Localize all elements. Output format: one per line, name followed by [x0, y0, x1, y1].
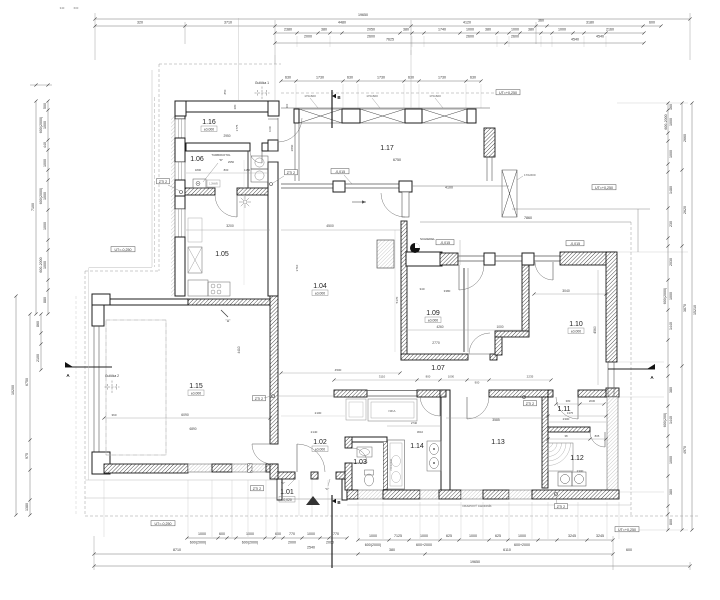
svg-text:6890: 6890 — [189, 427, 196, 431]
svg-text:600: 600 — [649, 21, 655, 25]
svg-text:4560: 4560 — [593, 326, 597, 334]
svg-text:6110: 6110 — [503, 548, 511, 552]
basins 1.14 — [427, 441, 441, 471]
svg-text:2770: 2770 — [432, 341, 440, 345]
mini chain 1.11 mid — [548, 415, 606, 417]
mini chain 1.12 top — [548, 438, 606, 440]
wall east block mid — [268, 162, 278, 296]
section marker A left — [65, 366, 112, 368]
svg-text:2100: 2100 — [315, 411, 322, 415]
svg-text:1380: 1380 — [25, 503, 29, 511]
svg-text:2140: 2140 — [311, 430, 318, 434]
svg-text:-0,020: -0,020 — [282, 498, 292, 502]
svg-text:6750: 6750 — [393, 158, 401, 162]
wardrobe niche 1.02 — [368, 399, 417, 421]
svg-text:UT=+0,250: UT=+0,250 — [595, 186, 613, 190]
svg-text:1800: 1800 — [195, 168, 202, 172]
east pillar 1.17 hatched — [484, 128, 495, 157]
wall east of 1.15 lower — [270, 464, 278, 479]
glazing north entry 2 — [495, 255, 522, 257]
svg-text:1.02: 1.02 — [313, 439, 327, 446]
svg-text:3110: 3110 — [379, 375, 386, 379]
svg-text:1740: 1740 — [438, 28, 446, 32]
wall 1.10 east — [606, 252, 617, 362]
extension drops below south rooms — [357, 502, 359, 539]
svg-text:340: 340 — [60, 6, 65, 10]
window 1.15 south 3 — [252, 464, 266, 472]
svg-text:ZTI 2: ZTI 2 — [557, 505, 565, 509]
svg-text:380: 380 — [669, 387, 673, 393]
svg-text:2030: 2030 — [589, 399, 596, 403]
dimension chain left lower outer 10200 — [15, 296, 17, 515]
window west wall of 1.15 — [93, 326, 95, 452]
wall pier 1.15 south — [212, 464, 232, 472]
divider wall 1.16/1.06 — [186, 143, 250, 151]
ZTI marker 1.15 — [253, 396, 266, 401]
svg-text:10200: 10200 — [11, 385, 15, 395]
svg-text:600-2000: 600-2000 — [664, 114, 668, 129]
wall 1.13 west upper — [440, 396, 446, 398]
svg-text:1.09: 1.09 — [426, 310, 440, 317]
svg-text:1.01: 1.01 — [280, 489, 294, 496]
svg-text:2860: 2860 — [290, 144, 294, 151]
east wall strip hatched — [606, 388, 619, 397]
svg-text:1000: 1000 — [369, 534, 377, 538]
corridor south wall C — [489, 390, 551, 397]
window west wall of 1.06 — [175, 162, 185, 180]
svg-text:6750: 6750 — [25, 378, 29, 386]
svg-text:1000: 1000 — [496, 325, 503, 329]
closet 1.02 corner — [346, 399, 366, 420]
mini chain 1.11 top — [556, 403, 604, 405]
overhang dashed bottom — [85, 515, 700, 517]
svg-text:380: 380 — [233, 104, 237, 109]
dashed floor area 1.15 — [106, 320, 166, 455]
south wall bottom strip — [347, 490, 358, 499]
wall 1.10 north exterior — [560, 252, 616, 265]
svg-text:975: 975 — [25, 453, 29, 459]
svg-text:2660: 2660 — [683, 134, 687, 142]
pier north 1.17 d — [467, 109, 476, 123]
niche east wall 1.06 — [268, 150, 278, 152]
section marker B bottom — [331, 495, 333, 568]
svg-text:3870: 3870 — [683, 304, 687, 312]
svg-text:1000: 1000 — [448, 375, 455, 379]
south glazing 1.17 line A — [281, 183, 333, 185]
svg-text:1.03: 1.03 — [353, 459, 367, 466]
insulation strip west of 1.16 block — [171, 116, 175, 296]
kitchen counter 1.05 — [188, 280, 208, 296]
wall 1.03 west upper — [345, 437, 352, 448]
dimension chain bottom row2 — [94, 553, 613, 555]
svg-text:2740: 2740 — [411, 421, 418, 425]
wall 1.05 west — [175, 196, 185, 209]
bathroom 1.03 WC — [365, 474, 374, 486]
kitchen fridge 1.05 — [188, 247, 202, 273]
svg-text:1150: 1150 — [244, 168, 250, 172]
washer dryer 1.12 — [558, 472, 586, 486]
level label UT bottom-right — [615, 527, 639, 532]
svg-text:2050: 2050 — [367, 28, 375, 32]
svg-text:1.17: 1.17 — [380, 145, 394, 152]
extension lines below entry — [298, 480, 300, 516]
svg-text:340: 340 — [419, 287, 424, 291]
svg-text:1000: 1000 — [466, 28, 474, 32]
svg-text:4540: 4540 — [571, 38, 579, 42]
dimension chain top row2 — [95, 25, 661, 27]
svg-text:630: 630 — [347, 76, 353, 80]
washer dryer 1.06 — [251, 156, 268, 169]
dimension chain left outer 7100 — [35, 101, 37, 314]
svg-text:2620: 2620 — [683, 206, 687, 214]
svg-text:OKAPOVÝ CHODNÍK: OKAPOVÝ CHODNÍK — [462, 504, 491, 508]
svg-text:2160: 2160 — [606, 28, 614, 32]
window west wall of 1.16 — [175, 119, 185, 138]
boiler 1.06 — [193, 179, 206, 188]
svg-text:-0,015: -0,015 — [440, 241, 450, 245]
svg-text:320: 320 — [137, 21, 143, 25]
level label UT right terrace — [592, 185, 616, 190]
svg-text:±0,000: ±0,000 — [191, 391, 201, 395]
wall 1.15 south — [104, 464, 188, 473]
wall 1.03 north — [348, 437, 387, 442]
interior dim row mid 1.15 — [104, 417, 270, 419]
svg-text:600: 600 — [275, 532, 281, 536]
svg-text:1500x2000: 1500x2000 — [390, 458, 393, 471]
svg-text:880: 880 — [43, 297, 47, 303]
svg-text:600+2000: 600+2000 — [514, 543, 530, 547]
west glazing 1.17 — [294, 123, 296, 181]
extension drops below 1.15 south wall — [103, 480, 105, 537]
svg-text:380: 380 — [321, 28, 327, 32]
svg-text:2380: 2380 — [284, 28, 292, 32]
svg-text:600(200): 600(200) — [663, 413, 667, 427]
svg-text:380: 380 — [528, 28, 534, 32]
paving edge lines below 1.15 — [85, 479, 277, 481]
svg-text:1730: 1730 — [438, 76, 446, 80]
svg-text:19650: 19650 — [358, 13, 368, 17]
wall 1.15 north — [104, 299, 188, 305]
vertical ext line x411 upper — [410, 50, 412, 108]
wall 1.14/1.13 divider — [441, 390, 450, 490]
lintel X-box 3 — [422, 109, 467, 123]
wall 1.09 north — [406, 252, 442, 266]
guide line hall — [459, 240, 461, 265]
roof overhang dashed over 1.17 — [281, 92, 512, 94]
wall east of 1.16 block upper — [268, 140, 278, 151]
svg-text:UT=-0,250: UT=-0,250 — [114, 248, 131, 252]
svg-text:3710: 3710 — [295, 264, 299, 271]
svg-text:1000: 1000 — [511, 28, 519, 32]
section marker B top — [331, 90, 333, 128]
svg-text:2540: 2540 — [307, 546, 315, 550]
svg-text:800: 800 — [426, 375, 431, 379]
wall 1.17 north line — [281, 107, 490, 109]
svg-text:7625: 7625 — [386, 38, 394, 42]
counter upper cabinets 1.05 — [188, 218, 202, 242]
ZTI marker 1.17 — [285, 170, 298, 175]
wall east of 1.15 — [270, 296, 278, 444]
door 1.06 to 1.05 — [236, 195, 238, 217]
svg-text:ZTI 2: ZTI 2 — [255, 397, 263, 401]
svg-text:2235: 2235 — [527, 375, 534, 379]
svg-text:2600: 2600 — [511, 35, 519, 39]
wall hall jog — [495, 331, 529, 337]
svg-text:1000: 1000 — [246, 532, 254, 536]
ZTI marker left — [157, 179, 170, 184]
svg-text:1.13: 1.13 — [491, 439, 505, 446]
svg-text:±0,000: ±0,000 — [204, 127, 214, 131]
svg-text:2100: 2100 — [36, 354, 40, 362]
svg-text:4540: 4540 — [596, 35, 604, 39]
svg-text:380: 380 — [485, 28, 491, 32]
level label UT left — [111, 247, 135, 252]
svg-text:380: 380 — [403, 28, 409, 32]
roof overhang dashed outline top-left — [159, 63, 281, 65]
svg-text:4260: 4260 — [436, 325, 443, 329]
level -0,015 near glazing — [331, 169, 349, 174]
corridor dim chain — [334, 379, 551, 381]
svg-text:ZTI 2: ZTI 2 — [159, 180, 167, 184]
svg-text:625: 625 — [446, 534, 452, 538]
svg-text:6090: 6090 — [181, 413, 189, 417]
corridor north wall — [401, 354, 468, 360]
wall 1.15 south-east corner — [266, 464, 278, 472]
svg-text:2300: 2300 — [577, 469, 584, 473]
svg-text:1000: 1000 — [420, 534, 428, 538]
flue star symbol 1.05 — [239, 196, 251, 208]
svg-text:1,2kW/B: 1,2kW/B — [209, 184, 218, 186]
svg-text:±0,000: ±0,000 — [428, 318, 438, 322]
svg-text:800: 800 — [669, 519, 673, 525]
divider wall 1.06/1.05 hatched — [185, 188, 215, 195]
svg-text:1.06: 1.06 — [190, 156, 204, 163]
svg-text:4970: 4970 — [683, 446, 687, 454]
svg-text:±0,000: ±0,000 — [315, 447, 325, 451]
wall 1.11/1.12 divider — [548, 427, 590, 432]
svg-text:"A": "A" — [226, 319, 231, 323]
svg-text:440: 440 — [43, 142, 47, 148]
dimension chain over 1.17 windows — [281, 80, 481, 82]
svg-text:630: 630 — [285, 76, 291, 80]
wall 1.13/1.11 divider — [542, 397, 548, 488]
svg-text:NIKA: NIKA — [388, 409, 395, 413]
svg-text:1.14: 1.14 — [410, 443, 424, 450]
svg-text:3245: 3245 — [596, 534, 604, 538]
svg-text:UT=+0,250: UT=+0,250 — [499, 91, 517, 95]
svg-text:1.07: 1.07 — [431, 365, 445, 372]
svg-text:3585: 3585 — [492, 418, 500, 422]
door corridor to 1.13 — [466, 397, 468, 419]
svg-text:Gulička 2: Gulička 2 — [105, 374, 119, 378]
wall 1.16 north exterior — [175, 101, 279, 112]
north entry pier 3 — [522, 253, 534, 265]
svg-text:15210: 15210 — [693, 305, 697, 315]
dimension chain top row4 — [275, 42, 644, 44]
lintel X-box east vertical — [502, 170, 517, 217]
svg-text:360: 360 — [538, 19, 544, 23]
shower 1.12 — [548, 443, 571, 466]
svg-text:600: 600 — [626, 548, 632, 552]
svg-text:2000: 2000 — [304, 35, 312, 39]
svg-text:230: 230 — [669, 221, 673, 227]
pier north 1.17 b — [342, 109, 360, 123]
wall 1.02 south with entry — [278, 472, 295, 479]
south wall pier c — [483, 490, 509, 499]
svg-text:600: 600 — [219, 532, 225, 536]
wall 1.03/1.14 divider — [384, 442, 388, 489]
svg-text:600(2000): 600(2000) — [663, 288, 667, 304]
svg-text:360: 360 — [111, 413, 116, 417]
lintel X-box 2 — [360, 109, 405, 123]
extension lines right side — [617, 251, 688, 253]
svg-text:1000: 1000 — [43, 261, 47, 269]
svg-text:1000: 1000 — [669, 292, 673, 300]
svg-text:860: 860 — [36, 321, 40, 327]
dimension chain right outer 15210 — [691, 103, 693, 530]
level label UT bottom-left — [151, 521, 175, 526]
svg-text:1000: 1000 — [268, 126, 272, 132]
south wall east part — [532, 490, 619, 499]
bathtub 1.14 — [388, 440, 405, 489]
svg-text:1000: 1000 — [198, 532, 206, 536]
patio door from 1.17 — [402, 192, 409, 217]
svg-text:"C": "C" — [281, 481, 285, 485]
wall west pier 3 — [175, 180, 185, 196]
window 1.14 south — [420, 490, 439, 499]
dimension chain top row3 — [275, 32, 644, 34]
dimension chain left lower detail — [29, 314, 31, 515]
svg-text:380: 380 — [389, 548, 395, 552]
svg-text:4500: 4500 — [335, 368, 342, 372]
svg-text:500: 500 — [43, 103, 47, 109]
svg-text:"C": "C" — [325, 487, 329, 491]
svg-text:4120: 4120 — [463, 21, 471, 25]
overhang thin solid step top-left — [151, 70, 153, 267]
wall west pier 2 — [175, 138, 185, 162]
svg-text:2000: 2000 — [288, 541, 296, 545]
pier north 1.17 a — [294, 109, 299, 123]
svg-text:850: 850 — [223, 89, 227, 94]
svg-text:380: 380 — [566, 399, 571, 403]
svg-text:2600: 2600 — [367, 35, 375, 39]
wall 1.16 west band — [175, 116, 185, 119]
door 1.16 to 1.17 — [277, 118, 279, 142]
interior dim 1.13 — [446, 417, 542, 419]
dimension chain left detail upper — [47, 101, 49, 314]
corridor south wall A — [334, 390, 367, 397]
overhang dashed left of 1.15 — [84, 271, 86, 516]
svg-text:3200: 3200 — [226, 224, 234, 228]
interior dim corridor — [401, 329, 528, 331]
svg-text:1.05: 1.05 — [215, 251, 229, 258]
dimension chain right detail — [667, 103, 669, 530]
svg-text:Gulička 1: Gulička 1 — [255, 81, 269, 85]
wall 1.15 west lower corner block — [92, 452, 110, 474]
svg-text:900: 900 — [475, 381, 480, 385]
stove 1.05 — [208, 282, 230, 296]
outer face line west of 1.15 — [88, 296, 90, 480]
svg-text:SCHIEDEL: SCHIEDEL — [420, 237, 435, 241]
svg-text:170x600: 170x600 — [304, 94, 316, 98]
svg-text:1375: 1375 — [567, 411, 574, 415]
dim 4500 south of 1.04 — [281, 372, 400, 374]
svg-text:2000: 2000 — [326, 541, 334, 545]
svg-text:160: 160 — [669, 104, 673, 110]
wall hall/1.10 west — [522, 265, 529, 335]
overhang dashed right — [630, 222, 632, 516]
svg-text:1.10: 1.10 — [569, 321, 583, 328]
line 1.02 top boundary — [278, 395, 334, 397]
svg-text:1.04: 1.04 — [313, 283, 327, 290]
wall 1.05 west lower — [175, 237, 185, 296]
window 1.15 south 2 — [232, 464, 248, 472]
svg-text:4500: 4500 — [326, 224, 334, 228]
svg-text:1000: 1000 — [307, 532, 315, 536]
south wall pier b — [439, 490, 461, 499]
window 1.13 south 2 — [509, 490, 532, 499]
svg-text:±0,000: ±0,000 — [315, 291, 325, 295]
svg-text:3040: 3040 — [562, 289, 570, 293]
mini dims 1.14 — [387, 425, 441, 427]
svg-text:805: 805 — [595, 434, 600, 438]
svg-text:±0,000: ±0,000 — [571, 329, 581, 333]
svg-text:1.16: 1.16 — [202, 119, 216, 126]
svg-text:ZTI 2: ZTI 2 — [253, 487, 261, 491]
svg-text:7860: 7860 — [524, 216, 532, 220]
ZTI marker 1.11 — [524, 401, 537, 406]
svg-text:770: 770 — [289, 532, 295, 536]
svg-text:1000: 1000 — [469, 534, 477, 538]
svg-text:3710: 3710 — [224, 21, 232, 25]
svg-text:-0,015: -0,015 — [570, 242, 580, 246]
terrace edge lines north-east — [512, 208, 650, 210]
window 1.13 south 1 — [461, 490, 483, 499]
east glazing 1.17 — [486, 157, 488, 181]
svg-text:2600: 2600 — [466, 35, 474, 39]
ZTI marker porch — [251, 486, 264, 491]
door 1.02 to 1.03 — [352, 462, 367, 464]
glazing north entry 1 — [458, 255, 484, 257]
svg-text:1730: 1730 — [316, 76, 324, 80]
svg-text:-0,015: -0,015 — [335, 170, 345, 174]
svg-text:2030: 2030 — [669, 258, 673, 266]
window west wall of 1.05 — [175, 209, 185, 237]
door corridor to 1.14 — [439, 396, 441, 416]
svg-text:170x600: 170x600 — [524, 173, 536, 177]
wall 1.13 north-west corner — [440, 390, 446, 397]
wall pier 1.15 south 2 — [248, 464, 252, 472]
door 1.16 to 1.06 — [261, 151, 263, 163]
svg-text:1000: 1000 — [518, 534, 526, 538]
svg-text:1000: 1000 — [43, 192, 47, 200]
interior dim 1.11 — [548, 421, 606, 423]
level -0,015 near entry — [436, 240, 454, 245]
svg-text:TURBOKOTOL: TURBOKOTOL — [211, 153, 231, 157]
svg-text:ZTI 2: ZTI 2 — [287, 171, 295, 175]
fireplace KRB 1.04 — [377, 240, 394, 268]
svg-text:625: 625 — [495, 534, 501, 538]
level label UT top 1.17 — [496, 90, 520, 95]
svg-text:1000: 1000 — [669, 150, 673, 158]
entry door arc 1.02 — [296, 444, 298, 472]
svg-text:1000: 1000 — [43, 121, 47, 129]
dimension chain bottom row1 right — [358, 539, 613, 541]
pier north 1.17 c — [405, 109, 422, 123]
section marker A right — [608, 368, 655, 370]
svg-text:600+2000: 600+2000 — [416, 543, 432, 547]
dimension chain bottom row1 left — [187, 537, 347, 539]
